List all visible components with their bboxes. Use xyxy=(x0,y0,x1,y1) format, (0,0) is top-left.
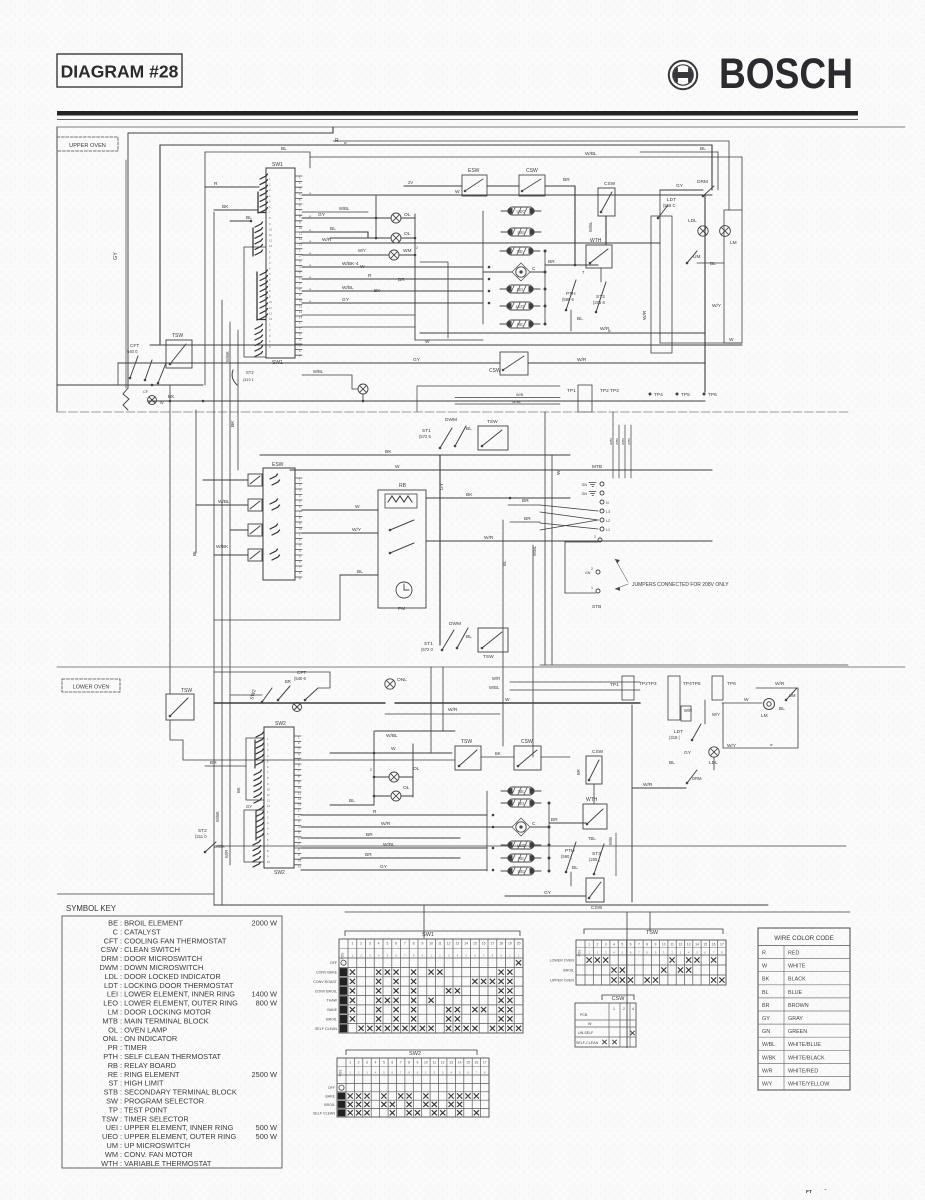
svg-text:UEI: UEI xyxy=(518,869,525,874)
wire strain relief left xyxy=(123,388,129,410)
svg-text:7: 7 xyxy=(638,943,640,947)
svg-text:UPPER OVEN: UPPER OVEN xyxy=(550,979,574,983)
svg-text:STB: STB xyxy=(104,1088,118,1097)
svg-text:TP4: TP4 xyxy=(654,392,663,398)
switch CSW upper xyxy=(519,175,545,196)
node LM box lower xyxy=(723,688,798,748)
svg-text:UEI: UEI xyxy=(518,230,525,235)
svg-text:W/B: W/B xyxy=(516,393,524,397)
svg-text:R: R xyxy=(214,181,218,187)
wire BL right xyxy=(502,520,504,746)
svg-text:W/R: W/R xyxy=(577,357,587,363)
svg-text:9: 9 xyxy=(655,943,657,947)
svg-text:BL: BL xyxy=(762,990,769,996)
svg-text:2: 2 xyxy=(596,943,598,947)
svg-text:SW2: SW2 xyxy=(409,1051,421,1057)
svg-text:4: 4 xyxy=(632,1007,634,1011)
svg-text:W/B: W/B xyxy=(608,837,613,845)
svg-text:W/BK: W/BK xyxy=(621,438,625,445)
svg-text:2V: 2V xyxy=(408,180,413,185)
SW2 pin hooks group 1 xyxy=(256,732,264,765)
svg-text:: BROIL ELEMENT: : BROIL ELEMENT xyxy=(120,919,183,928)
svg-text:11: 11 xyxy=(298,792,301,796)
svg-text:RB: RB xyxy=(399,483,407,489)
svg-text:8: 8 xyxy=(413,942,415,946)
wire W/R top lower xyxy=(510,681,640,683)
svg-text:LDL: LDL xyxy=(688,218,697,224)
terminal block MTB terminals xyxy=(600,482,604,486)
wire SW1 out W/Y xyxy=(302,254,330,256)
svg-text:1: 1 xyxy=(351,942,353,946)
wire W/BK to ESW xyxy=(214,554,248,556)
table CSW bracket xyxy=(602,995,634,1000)
svg-text:W/BL: W/BL xyxy=(383,842,395,848)
switch ST1 blade xyxy=(454,426,466,447)
svg-text:R: R xyxy=(762,951,766,957)
wire section divider xyxy=(57,411,850,413)
svg-text:(518 C: (518 C xyxy=(663,203,676,208)
table SW1 xyxy=(339,939,523,1033)
microswitch DWM lower xyxy=(441,630,454,651)
svg-text:3: 3 xyxy=(369,942,371,946)
svg-text:BK: BK xyxy=(230,420,236,427)
element BE upper xyxy=(500,247,540,255)
svg-text:W/BK: W/BK xyxy=(215,811,220,822)
svg-text:W/BL: W/BL xyxy=(762,1042,775,1048)
SW2 pin hooks group 4 xyxy=(253,840,261,867)
wire W/R lower xyxy=(385,713,500,715)
svg-text:JUMPERS CONNECTED FOR 208V ONL: JUMPERS CONNECTED FOR 208V ONLY xyxy=(632,582,729,588)
svg-text:LDL: LDL xyxy=(104,972,118,981)
svg-text:CSW: CSW xyxy=(521,739,533,745)
switch TSW aux blade xyxy=(157,363,166,384)
switch aux upper xyxy=(144,360,152,381)
svg-text:: UPPER ELEMENT, OUTER RING: : UPPER ELEMENT, OUTER RING xyxy=(120,1132,236,1141)
svg-text:CSW: CSW xyxy=(592,749,604,755)
wire BK right xyxy=(426,497,570,499)
lamp OL upper 2 xyxy=(391,233,401,243)
svg-text:W/Y: W/Y xyxy=(727,743,737,749)
table wire color code xyxy=(758,928,850,1090)
svg-text:DIAGRAM #28: DIAGRAM #28 xyxy=(61,62,179,82)
selector switch SW1 body xyxy=(266,168,295,358)
wire BL trunk xyxy=(195,410,197,553)
wire SW1 out R2 xyxy=(302,278,483,280)
svg-text:CF: CF xyxy=(143,390,149,394)
svg-text:2: 2 xyxy=(358,1061,360,1065)
wire BK mid xyxy=(260,454,570,456)
svg-text:WIRE COLOR CODE: WIRE COLOR CODE xyxy=(774,935,833,942)
lamp OL lower 1 xyxy=(389,772,399,782)
SW1 pin bracket 3 xyxy=(256,272,258,320)
ESW hooks inner xyxy=(272,480,280,560)
wire trunk left xyxy=(169,385,171,694)
svg-text:: MAIN TERMINAL BLOCK: : MAIN TERMINAL BLOCK xyxy=(120,1016,209,1025)
thermostat PTH lower xyxy=(565,842,576,873)
svg-text:BL: BL xyxy=(466,634,472,640)
wire W/BL2 xyxy=(455,403,560,405)
element UEI upper xyxy=(501,228,541,236)
timer selector TSW mid lower xyxy=(478,628,508,652)
svg-text:BK: BK xyxy=(222,204,229,210)
svg-text:W: W xyxy=(744,697,749,703)
timer selector TSW upper xyxy=(166,340,192,368)
svg-text:W/BL: W/BL xyxy=(489,685,500,690)
wire W/R lower 2 xyxy=(301,826,487,828)
svg-text:W/BL: W/BL xyxy=(342,285,354,291)
svg-text:LEI: LEI xyxy=(517,287,523,292)
svg-text:GY: GY xyxy=(439,482,445,490)
ESW pin box 1 xyxy=(248,474,262,486)
svg-text:ST2: ST2 xyxy=(246,370,254,375)
motor LM upper xyxy=(720,226,731,237)
svg-text:1: 1 xyxy=(613,1007,615,1011)
thermostat ST3 lower xyxy=(593,844,604,875)
svg-text:W/BL: W/BL xyxy=(386,733,398,739)
svg-text:W/R: W/R xyxy=(775,681,785,687)
svg-text:17: 17 xyxy=(483,1061,487,1065)
catalyst C upper xyxy=(483,263,545,281)
svg-text:CSW: CSW xyxy=(489,368,501,374)
relay contact 2 xyxy=(389,543,414,554)
wire to SW2 cluster xyxy=(230,694,262,696)
svg-text:: LOWER ELEMENT, OUTER RING: : LOWER ELEMENT, OUTER RING xyxy=(120,999,238,1008)
svg-text:1400 W: 1400 W xyxy=(252,990,277,999)
svg-text:W/Y: W/Y xyxy=(712,712,720,717)
indicator LDL lower xyxy=(709,747,719,757)
SW1 pin hooks group 4 xyxy=(255,324,263,357)
wire BL drop xyxy=(717,152,719,190)
svg-text:BL: BL xyxy=(577,316,583,322)
ESW pin numbers xyxy=(299,478,303,581)
wire to CSW table xyxy=(626,912,628,1003)
svg-text:GN: GN xyxy=(582,483,588,487)
svg-text:6: 6 xyxy=(395,942,397,946)
wire R to SW1 xyxy=(205,186,259,188)
svg-text:1: 1 xyxy=(588,943,590,947)
wire GY bottom xyxy=(505,895,586,897)
svg-text:16: 16 xyxy=(475,1061,479,1065)
wire to SW1 table xyxy=(423,905,425,938)
wire W/R to DRM xyxy=(632,787,686,789)
wire schematic bottom 1 xyxy=(214,904,768,906)
svg-text:DRM: DRM xyxy=(697,179,708,185)
svg-text:W/R: W/R xyxy=(643,782,653,788)
svg-text:10: 10 xyxy=(299,226,303,230)
svg-text:: RELAY BOARD: : RELAY BOARD xyxy=(120,1061,176,1070)
wire W/BL drop xyxy=(741,157,743,210)
wire BL bend xyxy=(214,575,340,620)
wire right mid vertical xyxy=(659,190,661,343)
switch CSW bottom xyxy=(586,878,604,902)
node box outer upper xyxy=(128,133,333,388)
svg-text:LEI: LEI xyxy=(518,801,524,806)
wire GY to DRM xyxy=(660,189,703,191)
svg-text:(572 0: (572 0 xyxy=(421,647,434,652)
test point TP6 xyxy=(703,393,706,396)
svg-text:TP6: TP6 xyxy=(727,681,736,687)
svg-text:6: 6 xyxy=(391,1061,393,1065)
svg-text:GY: GY xyxy=(246,804,252,809)
svg-text:W: W xyxy=(395,464,400,470)
wire CSW out xyxy=(545,185,575,187)
selector switch ESW body xyxy=(263,468,295,580)
svg-text:BR: BR xyxy=(365,852,372,858)
svg-text:20: 20 xyxy=(517,942,521,946)
lamp OL lower 2 xyxy=(391,791,401,801)
svg-text:LDT: LDT xyxy=(104,981,118,990)
svg-text:SW1: SW1 xyxy=(272,162,283,168)
svg-text:POS: POS xyxy=(578,950,582,957)
wire GY mid xyxy=(118,362,500,364)
svg-text:W: W xyxy=(588,1022,592,1026)
wire element bus left lower xyxy=(486,791,488,871)
svg-text:(540 6: (540 6 xyxy=(294,676,307,681)
wire into ESW xyxy=(404,185,462,187)
switch ST2 upper curve xyxy=(232,370,237,385)
wire W/BL top lower xyxy=(510,689,640,691)
wire CSW drop lower xyxy=(593,784,595,804)
wire element right bus xyxy=(544,251,546,324)
indicator LDL upper xyxy=(698,226,708,236)
svg-text:WTH: WTH xyxy=(586,797,598,803)
svg-text:5: 5 xyxy=(386,942,388,946)
svg-text:TSW: TSW xyxy=(181,688,192,694)
svg-text:TSW: TSW xyxy=(646,930,659,936)
svg-text:W/BK: W/BK xyxy=(615,438,619,445)
wire R lower xyxy=(301,814,487,816)
wire W/Y to RB xyxy=(302,532,378,534)
wire W/R right lower xyxy=(756,687,790,689)
svg-text:PR: PR xyxy=(108,1043,118,1052)
svg-text:MTB: MTB xyxy=(592,464,602,470)
svg-text:(205 (: (205 ( xyxy=(589,857,601,862)
svg-text:2: 2 xyxy=(416,246,418,250)
wire OL2 out xyxy=(401,795,413,797)
svg-text:(572 5: (572 5 xyxy=(419,434,432,439)
svg-text:UEO: UEO xyxy=(102,1132,118,1141)
table SW2 xyxy=(337,1058,489,1117)
wire WM drop xyxy=(362,394,364,401)
SW2 pin hooks group 2 xyxy=(254,770,262,803)
timer motor PM xyxy=(396,582,412,598)
selector SW2 inner block upper xyxy=(246,738,264,800)
fan motor CF lower xyxy=(293,703,302,712)
wire bus A xyxy=(213,212,215,905)
svg-text:: CLEAN SWITCH: : CLEAN SWITCH xyxy=(120,945,180,954)
svg-text:W/BK: W/BK xyxy=(627,438,631,445)
svg-text:10: 10 xyxy=(298,859,302,863)
svg-text:: CATALYST: : CATALYST xyxy=(120,927,161,936)
svg-text:10: 10 xyxy=(298,786,302,790)
wire SW1 out 11 xyxy=(302,326,415,328)
svg-text:OL: OL xyxy=(404,212,411,218)
svg-text:CONV BROIL: CONV BROIL xyxy=(315,989,337,993)
svg-text:11: 11 xyxy=(298,864,301,868)
svg-text:(318 (: (318 ( xyxy=(669,735,681,740)
svg-text:GY: GY xyxy=(413,357,421,363)
element UEO upper xyxy=(501,207,541,215)
svg-text:OL: OL xyxy=(413,766,420,772)
indicator ONL xyxy=(385,679,395,689)
svg-text:RE: RE xyxy=(518,856,524,861)
svg-text:BR: BR xyxy=(548,259,555,265)
svg-text:BE: BE xyxy=(518,789,524,794)
svg-text:BK: BK xyxy=(374,288,381,294)
svg-text:BROWN: BROWN xyxy=(788,1003,809,1009)
wire to ESW pin3 xyxy=(230,529,248,531)
SW2 pin bracket 1 xyxy=(254,740,256,768)
wire left inner xyxy=(125,160,127,388)
svg-text:4: 4 xyxy=(613,943,615,947)
svg-text:GN: GN xyxy=(585,571,591,575)
wire W to RB xyxy=(302,509,378,511)
wire element left bus xyxy=(482,211,484,324)
svg-text:15: 15 xyxy=(466,1061,470,1065)
wire W/BL mid lower xyxy=(375,730,455,732)
terminal block STB xyxy=(596,570,600,574)
svg-text:: DOOR MICROSWITCH: : DOOR MICROSWITCH xyxy=(120,954,202,963)
svg-text:TSW: TSW xyxy=(487,419,498,425)
switch SW2 aux 2 xyxy=(304,688,318,701)
svg-text:LM: LM xyxy=(730,240,737,246)
svg-text:GY: GY xyxy=(113,252,119,260)
svg-text:CONV ROAST: CONV ROAST xyxy=(313,980,338,984)
LOWER OVEN label xyxy=(62,679,120,692)
svg-text:WM: WM xyxy=(403,248,412,254)
wire W mid lower xyxy=(330,752,452,754)
svg-text:WHITE/YELLOW: WHITE/YELLOW xyxy=(788,1082,830,1088)
microswitch DRM lower xyxy=(686,770,697,784)
timer selector TSW lower-mid xyxy=(455,746,481,770)
wire lower divider xyxy=(57,666,905,668)
wire W/B vertical xyxy=(615,833,617,876)
svg-text:BR: BR xyxy=(398,277,405,283)
svg-text:: DOOR LOCKED INDICATOR: : DOOR LOCKED INDICATOR xyxy=(120,972,221,981)
svg-text:14: 14 xyxy=(464,942,468,946)
svg-text:2: 2 xyxy=(591,567,593,571)
svg-text:ESW: ESW xyxy=(468,168,480,174)
svg-text:14: 14 xyxy=(458,1061,462,1065)
relay board RB xyxy=(378,490,426,608)
thermostat WTH lower xyxy=(583,804,607,829)
svg-text:BL: BL xyxy=(330,226,336,232)
svg-text:4: 4 xyxy=(378,942,380,946)
svg-text:BROIL: BROIL xyxy=(563,969,574,973)
SW1 inner pin numbers xyxy=(269,177,272,349)
svg-text:19: 19 xyxy=(508,942,512,946)
timer selector TSW mid upper xyxy=(478,426,508,450)
svg-text:ONL: ONL xyxy=(397,677,407,683)
svg-text:BOSCH: BOSCH xyxy=(719,50,853,98)
svg-text:13: 13 xyxy=(687,943,691,947)
svg-text:16: 16 xyxy=(482,942,486,946)
svg-text:11: 11 xyxy=(438,942,442,946)
svg-text:W/BL: W/BL xyxy=(313,369,324,374)
svg-text:BK: BK xyxy=(236,787,241,793)
svg-text:SW2: SW2 xyxy=(274,870,285,876)
switch SW2 aux 1 xyxy=(261,688,272,703)
wire SW1 out W/BL xyxy=(302,290,483,292)
svg-text:15: 15 xyxy=(473,942,477,946)
svg-text:GN: GN xyxy=(582,492,588,496)
fan motor CF upper xyxy=(148,396,157,405)
svg-text:GY: GY xyxy=(342,297,350,303)
table SW2 bracket xyxy=(346,1050,477,1055)
svg-text:W: W xyxy=(455,189,460,195)
svg-text:BL: BL xyxy=(281,146,287,152)
wire OL1 out xyxy=(399,776,413,778)
svg-text:: HIGH LIMIT: : HIGH LIMIT xyxy=(120,1079,164,1088)
switch CSW lower-mid xyxy=(514,746,541,770)
svg-text:BAKE: BAKE xyxy=(327,1008,337,1012)
svg-text:18: 18 xyxy=(499,942,503,946)
svg-text:W/R: W/R xyxy=(762,1068,773,1074)
svg-text:LEO: LEO xyxy=(517,843,526,848)
wire BK to SW1 xyxy=(214,209,257,211)
wire CFT drop xyxy=(117,363,119,385)
wire W/R mid xyxy=(528,362,705,364)
wire CSW table drop xyxy=(626,995,628,1048)
wire BR to WTH lower xyxy=(549,822,586,824)
svg-text:TP: TP xyxy=(109,1105,119,1114)
wire left margin xyxy=(56,127,58,412)
svg-text:: SELF CLEAN THERMOSTAT: : SELF CLEAN THERMOSTAT xyxy=(120,1052,222,1061)
svg-text:CSW: CSW xyxy=(612,996,626,1002)
svg-text:W/BL: W/BL xyxy=(532,545,537,556)
svg-text:LEO: LEO xyxy=(516,304,525,309)
wire DRM down xyxy=(704,196,706,392)
svg-text:BR: BR xyxy=(210,760,217,766)
svg-text:LDL: LDL xyxy=(709,760,718,766)
svg-text:(205 6: (205 6 xyxy=(593,300,606,305)
svg-text:GY: GY xyxy=(676,183,684,189)
svg-text:W/BL: W/BL xyxy=(585,151,597,157)
svg-text:500 W: 500 W xyxy=(256,1132,277,1141)
svg-text:17: 17 xyxy=(720,943,724,947)
horizontal rule under title xyxy=(57,111,858,116)
svg-text:WHITE/BLACK: WHITE/BLACK xyxy=(788,1055,825,1061)
svg-text:WHITE/RED: WHITE/RED xyxy=(788,1068,818,1074)
motor LM lower xyxy=(764,699,775,710)
wire SW1 out 1b xyxy=(302,211,368,213)
wire BR stub xyxy=(508,504,540,506)
node junction box right of SW1 xyxy=(415,339,483,341)
svg-text:POS: POS xyxy=(339,1070,343,1077)
wire top right trunk xyxy=(333,140,729,142)
wire CSW to WTH xyxy=(605,216,607,245)
svg-text:12: 12 xyxy=(679,943,683,947)
SW1 pin bracket 1 xyxy=(257,192,259,213)
svg-text:LM: LM xyxy=(761,713,768,719)
svg-text:W/Y: W/Y xyxy=(352,527,362,533)
svg-text:UEO: UEO xyxy=(516,209,526,214)
svg-text:BE: BE xyxy=(517,249,523,254)
svg-text:UM: UM xyxy=(789,693,796,698)
microswitch UM lower xyxy=(785,688,797,701)
wire GY lower xyxy=(301,869,487,871)
svg-text:BL: BL xyxy=(710,261,716,267)
wire BR drop xyxy=(574,186,576,265)
svg-text:BLACK: BLACK xyxy=(788,977,806,983)
svg-text:2500 W: 2500 W xyxy=(252,1070,277,1079)
wire right box edge xyxy=(728,141,730,210)
svg-text:BAKE: BAKE xyxy=(325,1095,335,1099)
svg-text:: LOWER ELEMENT, INNER RING: : LOWER ELEMENT, INNER RING xyxy=(120,990,235,999)
svg-text:W/BK: W/BK xyxy=(609,438,613,445)
wire lamp bus xyxy=(414,214,416,340)
svg-text:GRAY: GRAY xyxy=(788,1016,803,1022)
